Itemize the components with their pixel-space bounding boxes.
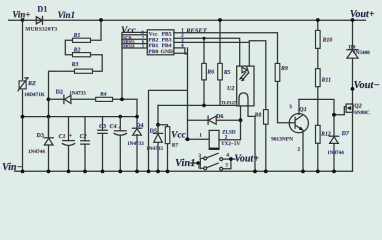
capacitor C3 — [98, 117, 107, 172]
svg-text:Vin−: Vin− — [2, 162, 23, 173]
svg-text:10D471K: 10D471K — [24, 92, 45, 98]
resistor R4 — [96, 97, 113, 101]
svg-text:C2: C2 — [80, 134, 87, 140]
svg-text:R9: R9 — [280, 66, 288, 72]
resistor R2 — [73, 53, 103, 72]
node D2 branch — [47, 97, 51, 101]
wire Vcc feed line — [49, 32, 148, 128]
wire Vin1 stub — [191, 162, 200, 164]
wire top rail — [9, 19, 366, 21]
svg-text:R4: R4 — [99, 92, 107, 98]
svg-text:1: 1 — [199, 133, 202, 139]
resistor R9 — [275, 63, 280, 81]
wire pin2 net — [174, 38, 240, 66]
svg-text:2: 2 — [225, 135, 228, 141]
svg-text:D7: D7 — [341, 131, 350, 137]
svg-text:Q1: Q1 — [299, 107, 306, 113]
svg-text:+: + — [118, 125, 121, 131]
svg-text:7: 7 — [225, 163, 228, 169]
zener D7 — [329, 136, 338, 171]
svg-text:C4: C4 — [110, 124, 117, 130]
svg-text:+: + — [69, 133, 72, 139]
svg-text:4: 4 — [226, 153, 229, 159]
resistor R8 — [264, 110, 269, 172]
wire pin3 net — [174, 41, 266, 110]
wire U2 collector / coil drive — [219, 106, 241, 140]
capacitor C1 — [62, 117, 74, 172]
diode D8 — [347, 50, 358, 59]
svg-text:1N4733: 1N4733 — [146, 146, 163, 152]
svg-text:6N80C: 6N80C — [354, 110, 370, 116]
resistor R11 — [316, 69, 321, 100]
svg-text:MURS320T3: MURS320T3 — [25, 27, 57, 33]
svg-text:1N4733: 1N4733 — [69, 90, 86, 96]
resistor R5 — [218, 20, 223, 105]
svg-text:Vin1: Vin1 — [58, 10, 76, 20]
relay coil K1 — [209, 130, 219, 149]
resistor R12 — [316, 99, 321, 171]
MOSFET Q2 — [344, 104, 353, 115]
diode D1 — [36, 16, 42, 24]
diode D6 — [188, 116, 241, 124]
wire gate node — [299, 99, 344, 135]
node Vout- — [351, 87, 355, 91]
svg-text:D5: D5 — [150, 128, 157, 134]
svg-text:Vout+: Vout+ — [234, 153, 259, 164]
svg-text:PB0: PB0 — [148, 49, 158, 55]
svg-text:D3: D3 — [37, 133, 44, 139]
svg-text:Vout−: Vout− — [354, 80, 380, 91]
svg-text:D6: D6 — [216, 114, 223, 120]
svg-text:TLP127: TLP127 — [221, 100, 237, 105]
resistor R10 — [316, 20, 321, 69]
svg-text:MOSI: MOSI — [123, 44, 135, 49]
svg-text:RZ: RZ — [27, 81, 36, 87]
wire bottom rail — [15, 170, 353, 172]
svg-text:5: 5 — [142, 44, 144, 49]
svg-text:2: 2 — [297, 146, 300, 152]
transistor Q1 — [289, 99, 308, 171]
capacitor C2 — [81, 117, 90, 172]
svg-text:R3: R3 — [71, 62, 79, 68]
svg-text:D4: D4 — [136, 123, 143, 129]
svg-text:R5: R5 — [223, 70, 231, 76]
capacitor C4 — [114, 117, 126, 172]
svg-text:1N4744: 1N4744 — [327, 150, 344, 156]
wire RESET to R9 to Q1 base — [174, 33, 291, 123]
svg-text:R7: R7 — [171, 143, 179, 149]
wire input cap bus — [23, 116, 138, 118]
svg-text:Vin+: Vin+ — [12, 10, 30, 20]
svg-text:R6: R6 — [206, 69, 214, 75]
wire right vertical Vout — [352, 20, 354, 171]
svg-text:U2: U2 — [227, 86, 234, 92]
svg-text:R8: R8 — [254, 112, 262, 118]
svg-text:D1: D1 — [37, 4, 47, 13]
svg-text:3: 3 — [289, 104, 292, 110]
svg-text:Vout+: Vout+ — [350, 9, 375, 20]
resistor R6 — [202, 63, 207, 105]
zener D2 — [64, 95, 71, 103]
MCU U1 box — [147, 30, 174, 55]
zener D4 — [132, 128, 141, 171]
varistor RZ — [18, 78, 28, 91]
svg-text:Vcc: Vcc — [171, 131, 187, 141]
svg-text:1N4744: 1N4744 — [28, 149, 45, 155]
svg-text:R2: R2 — [73, 47, 81, 53]
svg-text:R11: R11 — [321, 77, 331, 83]
relay contact 8-7 — [200, 159, 231, 170]
wire U2 emitter to ground — [248, 106, 255, 171]
svg-text:TX2−5V: TX2−5V — [221, 141, 240, 147]
svg-text:1N5408: 1N5408 — [353, 50, 370, 56]
svg-text:8: 8 — [198, 164, 201, 170]
svg-text:R1: R1 — [73, 33, 81, 39]
resistor R7 — [158, 125, 170, 172]
svg-text:9013NPN: 9013NPN — [271, 137, 293, 143]
relay contact 3-4 — [200, 153, 235, 168]
wire Vcc coil line — [186, 138, 210, 140]
svg-text:D2: D2 — [56, 90, 63, 96]
wire emitter bus left — [158, 104, 237, 106]
wire pin4 vertical — [149, 48, 188, 171]
connector table SCK MISO MOSI — [122, 35, 147, 49]
zener D5 branch — [153, 105, 162, 171]
svg-text:GND: GND — [161, 49, 173, 55]
svg-text:R10: R10 — [322, 37, 333, 43]
resistor R1 — [65, 20, 101, 55]
ground rail junction dots — [21, 170, 25, 174]
wire main left vertical — [22, 20, 24, 171]
zener D3 — [44, 117, 53, 172]
svg-text:3: 3 — [198, 153, 201, 159]
optocoupler U2 — [237, 66, 254, 106]
node Vin+ junction — [21, 18, 25, 22]
svg-text:C3: C3 — [99, 124, 106, 130]
svg-text:Q2: Q2 — [354, 104, 361, 110]
svg-text:1N4733: 1N4733 — [127, 141, 144, 147]
svg-text:C1: C1 — [59, 134, 66, 140]
resistor R3 — [49, 69, 93, 136]
